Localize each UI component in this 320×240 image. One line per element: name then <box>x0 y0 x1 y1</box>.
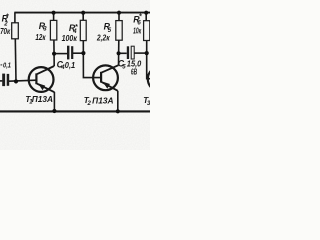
wire R2 top lead elbow <box>14 13 16 23</box>
wire R4 bottom lead to C4 node and T2 base elbow <box>83 41 101 78</box>
node R6 top <box>144 11 148 15</box>
label R2* 170k <box>0 13 11 36</box>
wire R6 top lead <box>145 13 147 21</box>
node T1 emitter ground <box>52 109 56 113</box>
wire T1 emitter vertical to ground <box>53 92 55 111</box>
label C5 15,0 6V <box>118 58 142 76</box>
wire T2 emitter vertical to ground <box>117 91 119 111</box>
wire R6 bottom lead to T3 base elbow <box>147 41 150 79</box>
wire R3 top lead <box>53 13 55 21</box>
label T3 <box>143 96 151 107</box>
wire T1 collector vertical to R3 <box>53 40 55 66</box>
node R3 top <box>52 11 56 15</box>
node T1 collector / C4 <box>52 52 56 56</box>
node T3 base / C5 <box>145 51 149 55</box>
node T1 base <box>14 79 18 83</box>
wire T2 collector vertical to R5 <box>118 40 120 65</box>
transistor T1 <box>29 66 55 92</box>
resistor R6 <box>144 21 150 41</box>
resistor R3 <box>50 20 56 40</box>
node R4 top <box>81 11 85 15</box>
wire C4 right lead <box>73 52 83 54</box>
label C3 0,1 <box>1 60 12 69</box>
wire C5 left lead <box>119 52 127 54</box>
capacitor C3 input <box>2 74 9 87</box>
transistor T2 <box>93 65 118 91</box>
junction node dots <box>14 11 149 114</box>
wire input lead from left edge <box>0 80 2 82</box>
node T2 emitter ground <box>116 109 120 113</box>
label T1 P13A <box>25 95 53 106</box>
wire R5 top lead <box>118 13 120 21</box>
wire bottom ground rail <box>0 110 150 112</box>
wire top supply rail <box>14 12 150 14</box>
label R6* 10k <box>133 14 142 36</box>
wire R2 bottom lead to base node <box>14 39 17 82</box>
capacitor C4 <box>67 46 73 60</box>
label T2 P13A <box>84 96 114 107</box>
wire C5 right lead <box>134 52 146 54</box>
label R5 2,2k <box>96 22 112 43</box>
label R4* 100k <box>62 23 78 43</box>
transistor T3 partial circle at edge <box>148 67 173 92</box>
label C4 0,1 <box>57 59 76 71</box>
resistor R2 <box>12 23 19 39</box>
label R3 12k <box>35 21 47 42</box>
resistor R4 <box>80 20 86 40</box>
node T2 collector / C5 <box>117 51 121 55</box>
capacitor C5 electrolytic <box>127 46 134 59</box>
resistor R5 <box>116 21 122 41</box>
wire R4 top lead <box>82 13 84 21</box>
wire C4 left lead <box>54 53 67 55</box>
wire base lead C3 to T1 base <box>9 80 36 81</box>
node T2 base / C4 <box>81 51 85 55</box>
node R5 top <box>117 11 121 15</box>
